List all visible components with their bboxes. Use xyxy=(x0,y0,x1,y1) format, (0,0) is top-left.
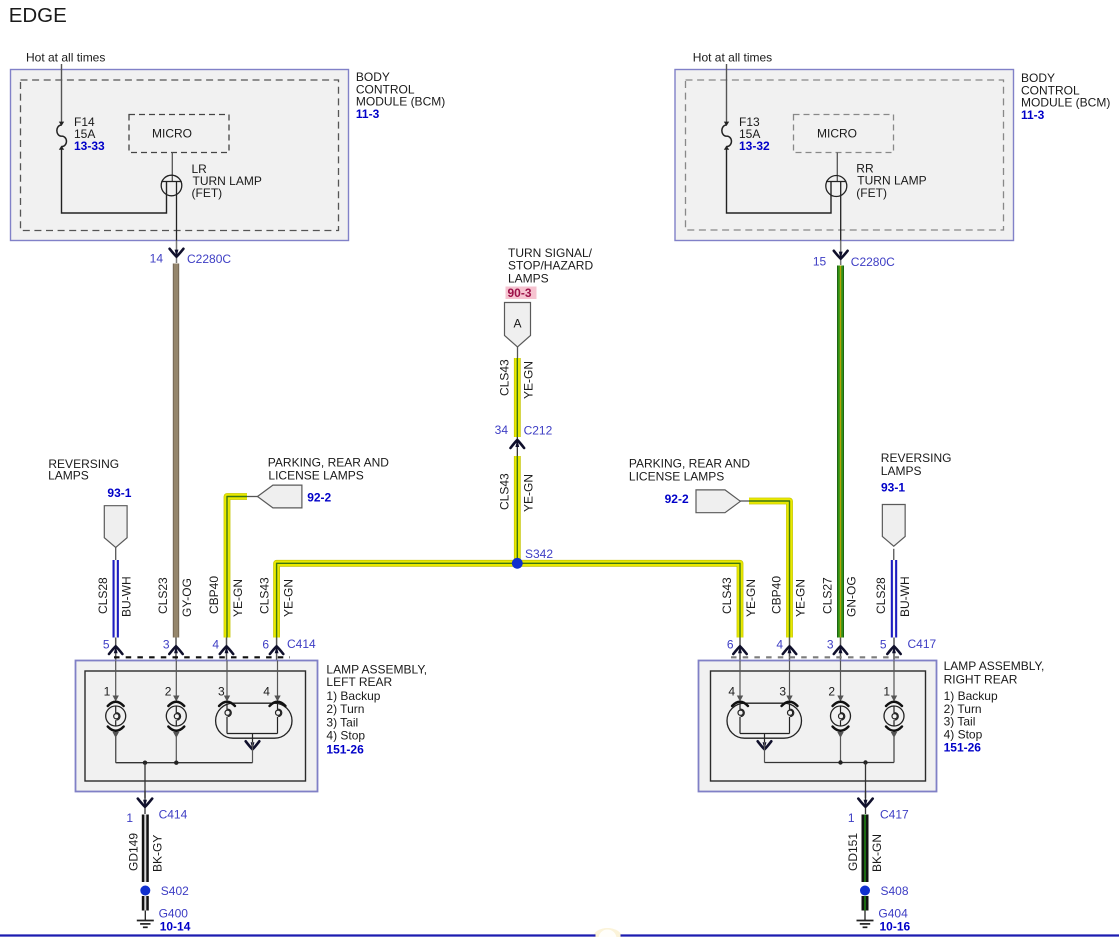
svg-text:90-3: 90-3 xyxy=(508,286,532,300)
svg-text:11-3: 11-3 xyxy=(356,107,380,121)
svg-text:CLS43: CLS43 xyxy=(258,577,272,614)
svg-text:151-26: 151-26 xyxy=(326,743,364,757)
svg-text:CLS43: CLS43 xyxy=(720,577,734,614)
svg-text:S342: S342 xyxy=(525,547,553,561)
svg-text:CBP40: CBP40 xyxy=(770,576,784,614)
svg-text:10-14: 10-14 xyxy=(160,920,191,934)
svg-text:YE-GN: YE-GN xyxy=(231,579,245,617)
svg-text:(FET): (FET) xyxy=(192,186,223,200)
svg-text:LAMPS: LAMPS xyxy=(48,469,89,483)
svg-text:C414: C414 xyxy=(159,808,188,822)
svg-text:3) Tail: 3) Tail xyxy=(326,715,358,729)
svg-text:CLS43: CLS43 xyxy=(497,473,511,510)
svg-text:5: 5 xyxy=(880,638,887,652)
svg-text:C2280C: C2280C xyxy=(187,252,231,266)
svg-text:3: 3 xyxy=(779,685,786,699)
svg-text:LICENSE LAMPS: LICENSE LAMPS xyxy=(629,469,724,483)
svg-text:C212: C212 xyxy=(524,424,553,438)
svg-text:CLS28: CLS28 xyxy=(96,577,110,614)
svg-text:93-1: 93-1 xyxy=(107,486,131,500)
svg-text:2: 2 xyxy=(828,685,835,699)
svg-text:5: 5 xyxy=(103,638,110,652)
svg-text:GD149: GD149 xyxy=(127,833,141,871)
svg-text:CLS27: CLS27 xyxy=(821,577,835,614)
svg-text:4: 4 xyxy=(728,685,735,699)
svg-text:LAMPS: LAMPS xyxy=(508,271,549,285)
svg-text:BU-WH: BU-WH xyxy=(898,576,912,617)
svg-text:92-2: 92-2 xyxy=(665,492,689,506)
svg-text:4: 4 xyxy=(776,638,783,652)
svg-text:PARKING, REAR AND: PARKING, REAR AND xyxy=(629,456,750,470)
svg-text:S408: S408 xyxy=(881,884,909,898)
svg-text:LEFT REAR: LEFT REAR xyxy=(326,675,392,689)
svg-text:11-3: 11-3 xyxy=(1021,108,1045,122)
svg-text:1) Backup: 1) Backup xyxy=(326,689,380,703)
svg-text:CLS23: CLS23 xyxy=(156,577,170,614)
svg-text:GN-OG: GN-OG xyxy=(845,576,859,617)
svg-text:6: 6 xyxy=(262,638,269,652)
svg-text:S402: S402 xyxy=(161,884,189,898)
svg-text:2: 2 xyxy=(165,685,172,699)
svg-text:LICENSE LAMPS: LICENSE LAMPS xyxy=(268,469,363,483)
svg-text:151-26: 151-26 xyxy=(944,740,982,754)
svg-text:13-33: 13-33 xyxy=(74,139,105,153)
svg-text:YE-GN: YE-GN xyxy=(794,579,808,617)
svg-text:YE-GN: YE-GN xyxy=(282,579,296,617)
svg-text:3: 3 xyxy=(163,638,170,652)
svg-text:RIGHT REAR: RIGHT REAR xyxy=(944,673,1018,687)
svg-text:YE-GN: YE-GN xyxy=(521,361,535,399)
svg-text:92-2: 92-2 xyxy=(307,491,331,505)
svg-text:YE-GN: YE-GN xyxy=(521,474,535,512)
svg-text:YE-GN: YE-GN xyxy=(744,579,758,617)
svg-text:C2280C: C2280C xyxy=(851,255,895,269)
svg-text:CLS28: CLS28 xyxy=(874,577,888,614)
svg-text:1: 1 xyxy=(848,811,855,825)
svg-text:REVERSING: REVERSING xyxy=(881,451,952,465)
svg-text:A: A xyxy=(513,317,521,331)
svg-text:3: 3 xyxy=(827,638,834,652)
svg-text:34: 34 xyxy=(495,423,509,437)
svg-text:CBP40: CBP40 xyxy=(207,576,221,614)
svg-text:G404: G404 xyxy=(878,907,908,921)
svg-text:Hot at all times: Hot at all times xyxy=(693,51,772,65)
svg-text:1: 1 xyxy=(104,685,111,699)
svg-text:3: 3 xyxy=(218,685,225,699)
svg-text:1: 1 xyxy=(883,685,890,699)
svg-text:2) Turn: 2) Turn xyxy=(326,702,364,716)
svg-text:3) Tail: 3) Tail xyxy=(944,715,976,729)
svg-text:15: 15 xyxy=(813,255,827,269)
svg-text:BU-WH: BU-WH xyxy=(120,576,134,617)
svg-text:13-32: 13-32 xyxy=(739,139,770,153)
svg-text:MICRO: MICRO xyxy=(817,127,857,141)
svg-text:4) Stop: 4) Stop xyxy=(326,729,365,743)
svg-text:CLS43: CLS43 xyxy=(497,359,511,396)
svg-text:4: 4 xyxy=(212,638,219,652)
svg-text:PARKING, REAR AND: PARKING, REAR AND xyxy=(268,456,389,470)
svg-text:LAMP ASSEMBLY,: LAMP ASSEMBLY, xyxy=(944,659,1045,673)
svg-text:93-1: 93-1 xyxy=(881,481,905,495)
svg-text:BK-GY: BK-GY xyxy=(150,835,164,872)
svg-text:6: 6 xyxy=(727,638,734,652)
svg-text:(FET): (FET) xyxy=(856,186,887,200)
svg-text:4: 4 xyxy=(263,685,270,699)
svg-text:MICRO: MICRO xyxy=(152,127,192,141)
svg-text:GY-OG: GY-OG xyxy=(180,578,194,617)
svg-text:G400: G400 xyxy=(159,907,189,921)
svg-text:GD151: GD151 xyxy=(846,833,860,871)
svg-text:C414: C414 xyxy=(287,637,316,651)
svg-text:LAMPS: LAMPS xyxy=(881,464,922,478)
svg-text:BK-GN: BK-GN xyxy=(870,834,884,872)
svg-text:1: 1 xyxy=(126,811,133,825)
svg-text:14: 14 xyxy=(150,252,164,266)
svg-text:C417: C417 xyxy=(880,808,909,822)
svg-text:2) Turn: 2) Turn xyxy=(944,702,982,716)
svg-text:EDGE: EDGE xyxy=(9,4,67,27)
svg-text:10-16: 10-16 xyxy=(880,920,911,934)
svg-text:C417: C417 xyxy=(908,637,937,651)
svg-text:Hot at all times: Hot at all times xyxy=(26,51,105,65)
